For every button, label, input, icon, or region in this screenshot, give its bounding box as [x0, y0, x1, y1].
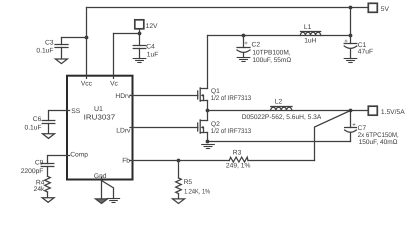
wire Comp branch [48, 156, 68, 164]
wire Q1 drain up [207, 36, 209, 89]
node switch node [206, 109, 210, 113]
svg-text:C2: C2 [252, 41, 261, 48]
pin tick HDrv [130, 95, 133, 97]
svg-text:1uH: 1uH [304, 38, 316, 45]
svg-text:1/2 of IRF7313: 1/2 of IRF7313 [211, 95, 252, 102]
pin tick SS [67, 110, 70, 112]
transistor Q1 [198, 88, 208, 101]
node C1/L1 junction [349, 34, 353, 38]
wire Q2 drain up [207, 111, 209, 121]
wire C1 stem [350, 36, 352, 44]
svg-text:2x 6TPC150M,: 2x 6TPC150M, [358, 132, 399, 139]
label C9 value [21, 159, 44, 175]
svg-text:150uF, 40mΩ: 150uF, 40mΩ [359, 139, 398, 146]
wire switch node to output [208, 110, 369, 112]
wire C7 stem [350, 111, 352, 128]
ground under Gnd right [107, 199, 119, 203]
power 1.5V/5A square [368, 106, 377, 115]
inductor L1 [301, 31, 321, 33]
node C2 junction [242, 34, 246, 38]
svg-text:0.1uF: 0.1uF [24, 124, 41, 131]
svg-text:1.24K, 1%: 1.24K, 1% [184, 188, 210, 195]
capacitor C4 [133, 45, 146, 47]
label C4 value [146, 44, 158, 59]
wire Gnd pin right branch diagonal [102, 181, 114, 199]
svg-text:12V: 12V [146, 23, 158, 30]
pin tick Vc [113, 76, 115, 79]
wire 12V stem [139, 29, 141, 34]
wire LDrv to Q2 gate [133, 127, 198, 129]
capacitor C3 [55, 44, 68, 46]
wire Fb line [133, 160, 230, 162]
svg-text:2200pF: 2200pF [21, 168, 44, 175]
IC U1 IRU3037 box [67, 76, 133, 180]
node 5V rail junction [349, 6, 353, 10]
svg-text:Q2: Q2 [211, 121, 220, 128]
svg-text:Fb: Fb [122, 158, 130, 165]
ground under Q2 source [202, 145, 215, 149]
power 5V square [368, 3, 377, 12]
wire 5V down to input node [350, 8, 352, 36]
svg-text:47uF: 47uF [358, 48, 373, 55]
power 12V square [135, 20, 144, 29]
wire C4 stem [139, 34, 141, 46]
pin tick LDrv [130, 127, 133, 129]
transistor Q2 [198, 120, 208, 133]
resistor R5 [176, 178, 182, 194]
svg-text:C7: C7 [358, 125, 367, 132]
label C1 value [358, 42, 373, 55]
node Fb/R5 junction [177, 159, 181, 163]
capacitor C9 [41, 163, 54, 165]
svg-text:1uF: 1uF [147, 52, 159, 59]
ground under Gnd left [96, 199, 108, 204]
label C7 value [358, 125, 399, 146]
wire HDrv to Q1 gate [133, 95, 198, 97]
wire R5 stem [178, 161, 180, 179]
node 12V junction [138, 32, 142, 36]
svg-text:0.1uF: 0.1uF [36, 48, 53, 55]
svg-text:5V: 5V [381, 6, 390, 13]
capacitor C7 polar [345, 127, 357, 129]
node output junction [349, 109, 353, 113]
svg-text:L1: L1 [304, 24, 312, 31]
svg-text:C3: C3 [45, 40, 54, 47]
wire C3 branch [62, 37, 87, 39]
resistor R4 [45, 176, 51, 192]
svg-text:24k: 24k [34, 186, 45, 193]
wire Vc branch [114, 33, 140, 35]
svg-text:IRU3037: IRU3037 [84, 113, 116, 122]
svg-text:D05022P-562, 5.6uH, 5.3A: D05022P-562, 5.6uH, 5.3A [242, 114, 322, 121]
label R4 value [34, 179, 45, 192]
svg-text:C9: C9 [35, 159, 44, 166]
label C2 value [252, 41, 292, 64]
pin tick Comp [67, 155, 70, 157]
svg-text:1/2 of IRF7313: 1/2 of IRF7313 [211, 128, 252, 135]
svg-text:Vc: Vc [110, 81, 118, 88]
label C3 value [36, 40, 53, 55]
svg-text:10TPB100M,: 10TPB100M, [252, 49, 290, 56]
label C6 value [24, 116, 41, 131]
ground under C1 [344, 59, 357, 63]
svg-text:100uF, 55mΩ: 100uF, 55mΩ [252, 57, 291, 64]
svg-text:+: + [352, 122, 356, 128]
wire Gnd pin left branch [101, 180, 103, 199]
svg-text:Vcc: Vcc [81, 81, 93, 88]
ground under C6 [43, 134, 55, 139]
pin tick Gnd [101, 177, 103, 180]
label U1 pin names [70, 81, 131, 180]
node Q2 source ground node [206, 140, 210, 144]
svg-text:C6: C6 [33, 116, 42, 123]
svg-text:SS: SS [71, 108, 80, 115]
svg-text:LDrv: LDrv [116, 128, 131, 135]
ground under R5 [173, 199, 185, 204]
label R5 value [184, 179, 211, 195]
ground under R4 [42, 198, 54, 203]
wire Vcc vertical [86, 8, 88, 76]
wire SS branch [49, 111, 68, 121]
wire ground line to C7 [208, 141, 351, 143]
inductor L2 [271, 106, 292, 108]
svg-text:R3: R3 [233, 150, 242, 157]
wire C2 stem [243, 36, 245, 48]
wire Q1 source to switch node [207, 101, 209, 111]
svg-text:L2: L2 [275, 99, 283, 106]
svg-text:Q1: Q1 [211, 88, 220, 95]
ground under C4 [133, 59, 146, 63]
capacitor C1 polar [344, 43, 357, 45]
pin tick Vcc [86, 76, 88, 79]
wire feedback diagonal [315, 111, 351, 161]
capacitor C2 polar [237, 47, 250, 49]
svg-text:+: + [244, 41, 248, 47]
svg-text:R5: R5 [184, 179, 193, 186]
capacitor C6 [42, 120, 55, 122]
svg-text:+: + [344, 39, 348, 45]
svg-text:249, 1%: 249, 1% [226, 163, 251, 170]
wire Q2 source down [207, 133, 209, 142]
wire 5V top rail [87, 7, 369, 9]
ground under C2 [237, 58, 250, 62]
wire input rail [208, 35, 351, 37]
svg-text:C4: C4 [146, 44, 155, 51]
resistor R3 [229, 157, 248, 162]
svg-text:HDrv: HDrv [115, 93, 131, 100]
svg-text:Comp: Comp [70, 151, 88, 158]
pin tick Fb [130, 160, 133, 162]
svg-text:1.5V/5A: 1.5V/5A [381, 109, 405, 116]
node Vcc/C3 junction [85, 36, 89, 40]
svg-text:Gnd: Gnd [94, 173, 107, 180]
ground under C3 [55, 59, 67, 64]
